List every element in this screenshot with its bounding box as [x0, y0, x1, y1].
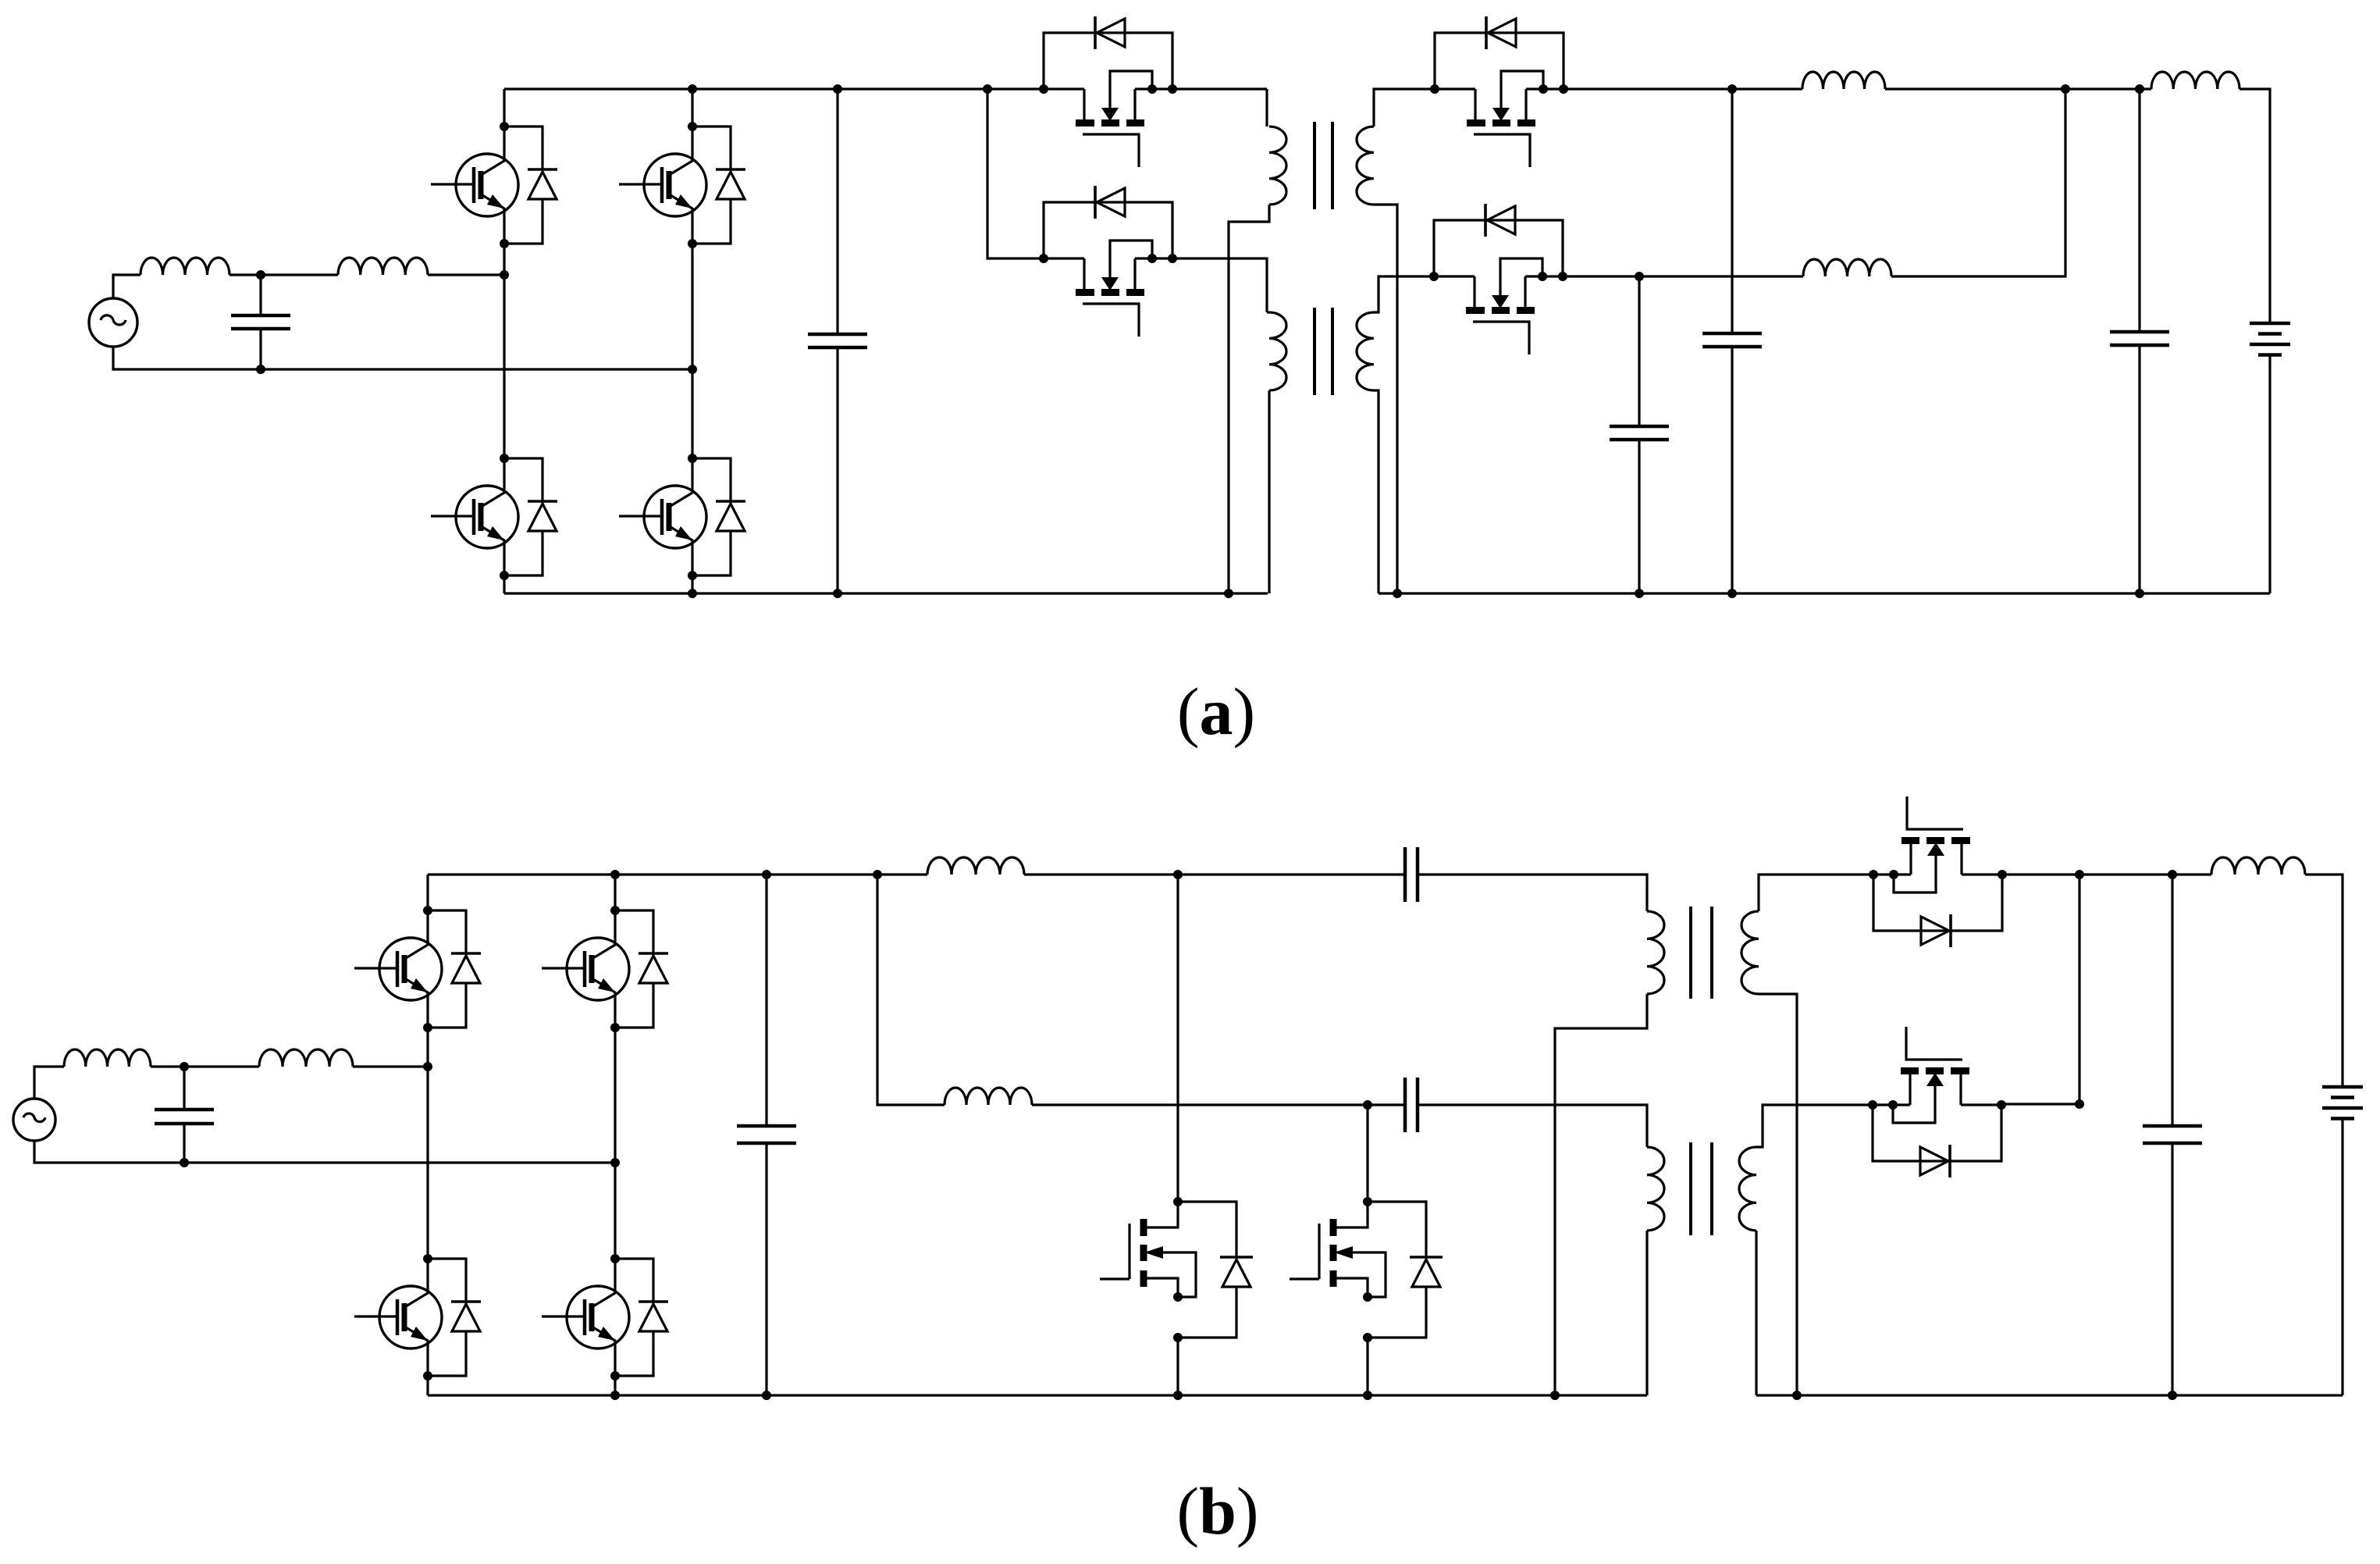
battery Vbat (b) — [2322, 1087, 2363, 1119]
wire Vg top lead (a) — [113, 275, 141, 298]
capacitor Cr2 (b) — [1405, 1078, 1418, 1132]
wire Cf drop (a) — [259, 275, 261, 315]
AC source Vg (b) — [13, 1099, 55, 1141]
node M1 rail node (b) — [1173, 1391, 1183, 1400]
wire left leg mid (a) — [503, 244, 505, 458]
node filter cap top (a) — [256, 270, 265, 280]
transformer winding TX1 primary (b) — [1647, 911, 1664, 994]
wire branch drop (b) — [877, 875, 945, 1105]
wire TX2 sec top (a) — [1374, 276, 1434, 312]
wire bottom rail primary (a) — [504, 592, 1268, 594]
capacitor Cf (b) — [155, 1110, 214, 1124]
node pair feed node (a) — [983, 84, 992, 94]
inductor Lg1 (b) — [64, 1049, 151, 1067]
wire battery low (b) — [2341, 1119, 2343, 1396]
transformer winding TX2 primary (b) — [1647, 1147, 1664, 1231]
wire Vg bottom lead (a) — [113, 347, 692, 369]
transformer winding TX1 primary (a) — [1269, 126, 1286, 205]
inductor Lo1 (a) — [1802, 72, 1885, 89]
inductor Lr2 (b) — [945, 1088, 1032, 1105]
node cap2 node (a) — [1727, 84, 1737, 94]
wire cap3 low (a) — [2138, 345, 2140, 593]
capacitor Cdc (a) — [808, 334, 867, 347]
capacitor Cdc (b) — [737, 1126, 796, 1143]
wire right leg bottom (a) — [691, 575, 693, 593]
node rail nodes (a) — [688, 84, 1233, 598]
wire Vg top lead (b) — [34, 1067, 64, 1099]
wire M2 to rail (b) — [1366, 1338, 1368, 1395]
capacitor C3 (a) — [2110, 332, 2169, 345]
inductor Lg2 (a) — [338, 258, 428, 275]
wire TX1 pri bottom (a) — [1229, 205, 1269, 593]
node merge node (b) — [2075, 1099, 2084, 1109]
wire top rail (a) — [504, 87, 1044, 90]
transformer winding TX2 secondary (b) — [1739, 1147, 1756, 1231]
node TX1 sec return node (a) — [1393, 589, 1402, 598]
transformer winding TX1 secondary (a) — [1357, 126, 1374, 205]
IGBT Q4 (b) with antiparallel diode — [542, 1254, 668, 1381]
wire TX1 pri top lead (a) — [1265, 89, 1268, 126]
transformer winding TX1 secondary (b) — [1741, 911, 1759, 994]
wire TX1 sec top (b) — [1759, 875, 1873, 911]
wire to battery (a) — [2239, 89, 2270, 323]
wire cap1 low (a) — [1638, 440, 1640, 593]
inductor Lg1 (a) — [141, 258, 229, 275]
wire Lo2 out (a) — [1891, 89, 2065, 276]
wire Lr2 out (b) — [1032, 1103, 1405, 1106]
wire Vg bottom lead (b) — [34, 1141, 615, 1163]
wire sec top wire (a) — [1564, 87, 1802, 90]
MOSFET switch S1 with series diode (a) — [1039, 16, 1177, 167]
node rail node out (b) — [2168, 1391, 2177, 1400]
node AC node left leg (a) — [500, 270, 509, 280]
wire left leg top (b) — [426, 875, 429, 910]
wire bottom rail secondary (a) — [1379, 592, 2270, 594]
IGBT Q4 (a) with antiparallel diode — [619, 454, 745, 580]
wire to bridge leg A (a) — [428, 273, 504, 276]
wire cap2 drop (a) — [1731, 89, 1733, 333]
wire cap2 low (a) — [1731, 347, 1733, 593]
IGBT Q3 (a) with antiparallel diode — [431, 454, 557, 580]
AC source Vg (a) — [89, 298, 137, 347]
node M2 rail node (b) — [1363, 1391, 1372, 1400]
wire Lr1 out (b) — [1024, 873, 1405, 875]
wire TX2 sec bottom (a) — [1374, 390, 1379, 593]
wire DC-link drop (a) — [836, 89, 838, 334]
capacitor C2 (a) — [1702, 333, 1762, 347]
wire left leg bottom (a) — [503, 575, 505, 593]
svg-text:(a): (a) — [1177, 674, 1255, 749]
node Cf bottom node (b) — [180, 1158, 189, 1167]
MOSFET switch S3 with series diode (a) — [1430, 16, 1568, 167]
node M1 drain node (b) — [1173, 870, 1183, 879]
wire right leg top (b) — [614, 875, 616, 910]
wire TX2 sec bottom (b) — [1755, 1231, 1757, 1395]
wire sec low wire (a) — [1563, 275, 1803, 277]
wire right leg mid (a) — [691, 244, 693, 458]
wire filter node link (a) — [229, 273, 338, 276]
transformer core TX1 (b) — [1691, 907, 1712, 999]
wire TX1 sec bottom (a) — [1374, 205, 1397, 593]
capacitor Co (b) — [2143, 1126, 2202, 1143]
IGBT Q2 (a) with antiparallel diode — [619, 122, 745, 248]
IGBT Q1 (b) with antiparallel diode — [354, 906, 481, 1032]
wire right leg mid (b) — [614, 1028, 616, 1259]
wire DC-link drop (b) — [765, 875, 767, 1126]
wire Cf drop (b) — [183, 1067, 185, 1110]
wire filter link (b) — [151, 1065, 259, 1067]
wire Cr2 out (b) — [1418, 1105, 1647, 1147]
inductor Lg2 (b) — [259, 1049, 353, 1067]
wire Cf to bottom (a) — [259, 329, 261, 369]
wire S2 out to TX2 (a) — [1172, 258, 1267, 312]
node AC node left leg (b) — [423, 1062, 432, 1071]
wire left leg mid (b) — [426, 1028, 429, 1259]
wire TX1 sec bottom (b) — [1759, 994, 1797, 1395]
node filter cap top (b) — [180, 1062, 189, 1071]
inductor Lo3 (a) — [2151, 72, 2239, 89]
wire bottom rail primary (b) — [428, 1394, 1647, 1396]
wire TX2 pri top lead (a) — [1267, 311, 1269, 313]
node Cf bottom node (a) — [256, 365, 265, 374]
wire right leg top (a) — [691, 89, 693, 126]
transformer core TX2 (b) — [1691, 1142, 1712, 1235]
wire cap3 drop (a) — [2138, 89, 2140, 332]
node AC node right leg (a) — [688, 365, 697, 374]
wire TX2 pri bottom (a) — [1268, 390, 1270, 593]
wire TX2 pri bottom (b) — [1645, 1231, 1648, 1395]
MOSFET M3 with parallel diode (b) — [1869, 796, 2007, 947]
MOSFET M4 with parallel diode (b) — [1868, 1027, 2006, 1177]
wire right leg bottom (b) — [614, 1376, 616, 1395]
wire pair2 feed (a) — [987, 89, 1044, 258]
wire DC-link drop low (a) — [836, 347, 838, 593]
MOSFET M1 with antiparallel diode (b) — [1100, 1197, 1253, 1342]
wire bottom rail secondary (b) — [1756, 1394, 2343, 1396]
transformer winding TX2 primary (a) — [1269, 312, 1286, 390]
svg-text:(b): (b) — [1176, 1473, 1258, 1548]
inductor Lo (b) — [2211, 857, 2305, 875]
wire left leg (a) — [503, 89, 505, 126]
wire M1 to rail (b) — [1176, 1338, 1179, 1395]
IGBT Q3 (b) with antiparallel diode — [354, 1254, 481, 1381]
wire merge link (b) — [2001, 1103, 2079, 1105]
battery Vbat (a) — [2250, 323, 2290, 355]
wire left leg bottom (b) — [426, 1376, 429, 1395]
wire TX2 sec top (b) — [1756, 1105, 1873, 1147]
wire merge drop (b) — [2078, 875, 2080, 1104]
node out nodes (b) — [2075, 870, 2177, 879]
wire to bridge (b) — [353, 1065, 428, 1067]
wire DC-link low (b) — [765, 1143, 767, 1395]
wire Cf low (b) — [183, 1124, 185, 1163]
wire top rail (b) — [428, 873, 927, 875]
MOSFET switch S4 with series diode (a) — [1429, 204, 1567, 354]
node rail nodes (b) — [610, 870, 1560, 1400]
wire TX1 pri bottom (b) — [1555, 994, 1647, 1395]
wire Lo1 out (a) — [1885, 87, 2151, 90]
capacitor Cf (a) — [231, 315, 290, 329]
capacitor C1 (a) — [1610, 426, 1669, 440]
wire Cr1 out (b) — [1418, 875, 1647, 911]
inductor Lo2 (a) — [1803, 259, 1891, 276]
IGBT Q1 (a) with antiparallel diode — [431, 122, 557, 248]
MOSFET switch S2 with series diode (a) — [1039, 186, 1177, 337]
wire cap out low (b) — [2171, 1143, 2173, 1395]
node M2 drain node (b) — [1363, 1100, 1372, 1110]
wire sec top out (b) — [2002, 873, 2211, 875]
wire battery low (a) — [2268, 355, 2271, 594]
capacitor Cr1 (b) — [1405, 847, 1418, 902]
node rail nodes 2 (a) — [1635, 589, 2144, 598]
transformer winding TX2 secondary (a) — [1357, 312, 1374, 390]
wire cap out drop (b) — [2171, 875, 2173, 1126]
node cap1 node (a) — [1635, 272, 1644, 281]
transformer core TX2 (a) — [1315, 308, 1332, 395]
wire to battery (b) — [2305, 875, 2343, 1087]
wire M2 drain riser (b) — [1366, 1105, 1368, 1202]
node AC node right leg (b) — [610, 1158, 620, 1167]
wire S1 out to TX1 (a) — [1172, 87, 1267, 90]
wire M1 drain riser (b) — [1176, 875, 1179, 1202]
inductor Lr1 (b) — [927, 857, 1024, 875]
wire TX1 sec top (a) — [1374, 89, 1435, 126]
IGBT Q2 (b) with antiparallel diode — [542, 906, 668, 1032]
node TX1 sec return node (b) — [1792, 1391, 1802, 1400]
transformer core TX1 (a) — [1315, 122, 1332, 209]
node merge nodes (a) — [2061, 84, 2144, 94]
wire cap1 drop (a) — [1638, 276, 1640, 426]
MOSFET M2 with antiparallel diode (b) — [1290, 1197, 1443, 1342]
